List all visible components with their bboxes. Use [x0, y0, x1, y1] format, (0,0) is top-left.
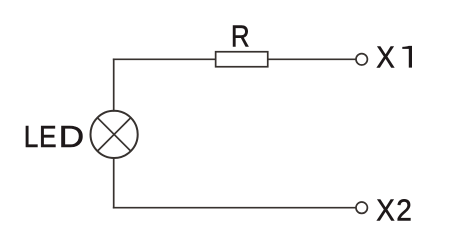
svg-text:D: D — [59, 121, 84, 154]
svg-text:L: L — [24, 121, 39, 154]
svg-text:R: R — [231, 21, 250, 54]
svg-text:X: X — [376, 194, 395, 227]
svg-text:E: E — [39, 121, 57, 154]
svg-text:2: 2 — [396, 194, 412, 227]
svg-text:X: X — [376, 42, 395, 75]
